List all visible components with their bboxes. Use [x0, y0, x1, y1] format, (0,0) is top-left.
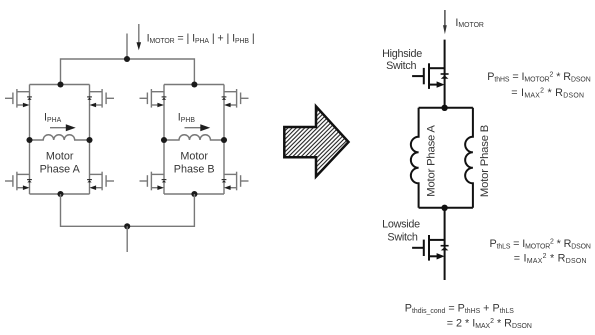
junction: phase A winding right	[86, 137, 92, 143]
label: Motor Phase B	[174, 151, 215, 176]
svg-text:= 2 * IMAX2 * RDSON: = 2 * IMAX2 * RDSON	[447, 318, 532, 330]
svg-text:IMOTOR = | IPHA | + | IPHB |: IMOTOR = | IPHA | + | IPHB |	[147, 33, 255, 45]
junction: phase B winding left	[161, 137, 167, 143]
wire: phase B bridge bottom	[164, 193, 224, 195]
svg-text:Phase B: Phase B	[174, 164, 215, 176]
inductor: motor phase B winding	[164, 135, 224, 140]
svg-text:= IMAX2 * RDSON: = IMAX2 * RDSON	[511, 87, 584, 99]
svg-text:PthHS = IMOTOR2 * RDSON: PthHS = IMOTOR2 * RDSON	[487, 71, 590, 83]
inductor: right motor phase B winding	[465, 108, 473, 208]
junction: bottom bus center	[124, 223, 130, 229]
junction: phase A winding left	[26, 137, 32, 143]
wire: phase A left leg	[29, 85, 31, 195]
current arrow IPHB	[185, 124, 211, 131]
transistor: phase B high-side right MOSFET	[222, 89, 249, 108]
label: Highside Switch	[382, 48, 422, 72]
svg-text:IPHA: IPHA	[44, 112, 62, 124]
svg-text:Motor Phase B: Motor Phase B	[479, 125, 491, 197]
junction: phase B winding right	[221, 137, 227, 143]
svg-text:Lowside: Lowside	[382, 219, 420, 231]
wire: parallel box top	[419, 107, 473, 109]
svg-text:Motor: Motor	[46, 151, 74, 163]
svg-text:Motor: Motor	[180, 151, 208, 163]
junction: phase A bottom node	[57, 191, 63, 197]
current arrow IMOTOR (right)	[443, 10, 447, 34]
svg-text:Phase A: Phase A	[40, 164, 81, 176]
transistor: lowside switch MOSFET	[412, 235, 449, 261]
transistor: phase B low-side right MOSFET	[222, 172, 249, 191]
wire: IMOTOR input drop (left circuit)	[126, 34, 128, 60]
svg-text:= IMAX2 * RDSON: = IMAX2 * RDSON	[514, 253, 587, 265]
wire: right circuit top feed	[444, 40, 446, 108]
svg-text:IPHB: IPHB	[178, 112, 196, 124]
svg-text:Pthdis_cond = PthHS + PthLS: Pthdis_cond = PthHS + PthLS	[405, 302, 514, 314]
junction: phase B top node	[191, 81, 197, 87]
current arrow IPHA	[50, 124, 76, 131]
current arrow IMOTOR (left)	[137, 24, 142, 50]
transistor: phase A high-side right MOSFET	[87, 89, 114, 108]
transistor: phase A low-side right MOSFET	[87, 172, 114, 191]
svg-text:Motor Phase A: Motor Phase A	[425, 125, 437, 197]
inductor: right motor phase A winding	[411, 108, 419, 208]
wire: parallel box bottom	[419, 207, 473, 209]
transistor: phase B low-side left MOSFET	[140, 172, 167, 191]
junction: top rail / IMOTOR	[124, 56, 130, 62]
junction: phase A top node	[57, 81, 63, 87]
transistor: highside switch MOSFET	[412, 63, 449, 89]
wire: bottom output stub	[126, 226, 128, 252]
junction: phase B bottom node	[191, 191, 197, 197]
wire: phase B left leg	[163, 85, 165, 195]
wire: right circuit lower branch	[444, 208, 446, 280]
transistor: phase B high-side left MOSFET	[140, 89, 167, 108]
wire: phase A bridge top	[30, 84, 90, 86]
junction: parallel windings bottom node	[441, 205, 447, 211]
svg-text:Highside: Highside	[382, 48, 422, 60]
transistor: phase A low-side left MOSFET	[5, 172, 32, 191]
inductor: motor phase A winding	[30, 135, 90, 140]
svg-text:Switch: Switch	[387, 231, 417, 243]
svg-text:Switch: Switch	[386, 60, 416, 72]
wire: bottom return bus	[61, 194, 195, 226]
wire: phase B bridge top	[164, 84, 224, 86]
label: Motor Phase A	[40, 151, 81, 176]
svg-text:IMOTOR: IMOTOR	[455, 17, 484, 29]
transistor: phase A high-side left MOSFET	[5, 89, 32, 108]
svg-text:PthLS = IMOTOR2 * RDSON: PthLS = IMOTOR2 * RDSON	[490, 238, 591, 250]
wire: top supply rail with drops to both bridges	[61, 59, 195, 85]
block arrow (transformation)	[284, 106, 348, 176]
label: Lowside Switch	[382, 219, 420, 244]
wire: phase A bridge bottom	[30, 193, 90, 195]
wire: phase B right leg	[223, 85, 225, 195]
wire: phase A right leg	[89, 85, 91, 195]
junction: parallel windings top node	[441, 105, 447, 111]
